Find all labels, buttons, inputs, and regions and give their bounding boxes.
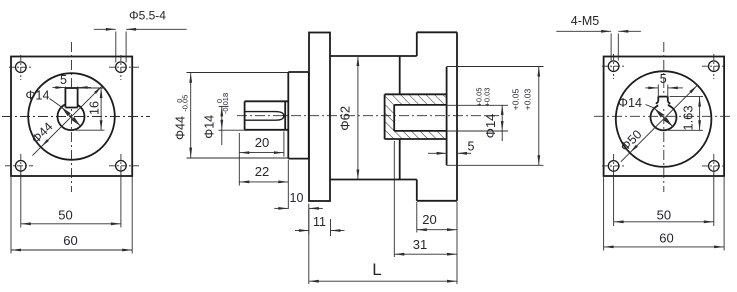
left view corner hole top-left	[15, 62, 26, 73]
dimension Phi14 leader and diameter line (right view)	[646, 105, 655, 109]
svg-text:31: 31	[413, 237, 427, 252]
extension lines for 50/60 dims (right view)	[613, 172, 615, 227]
svg-text:Φ44: Φ44	[174, 116, 188, 140]
output spigot Phi50 edge lines	[446, 67, 448, 166]
svg-text:16: 16	[88, 101, 102, 115]
svg-text:L: L	[372, 260, 381, 279]
left view bore circle Phi14	[58, 103, 85, 130]
dimension Phi44 (middle view input boss)	[187, 72, 288, 74]
right view vertical centerline	[663, 42, 665, 192]
dimension 10 boss length	[308, 204, 310, 235]
gearbox body Phi62 outline	[330, 55, 417, 57]
svg-text:50: 50	[58, 208, 72, 223]
svg-text:-0.018: -0.018	[221, 93, 230, 114]
dimension 20 keyway length	[238, 133, 240, 186]
svg-text:60: 60	[63, 233, 77, 248]
svg-text:Φ5.5-4: Φ5.5-4	[129, 9, 166, 23]
svg-text:Φ14: Φ14	[203, 115, 217, 139]
svg-text:11: 11	[313, 215, 326, 229]
dimension 5 keyway width (right view)	[657, 85, 659, 97]
svg-text:50: 50	[657, 208, 671, 223]
svg-text:Φ14: Φ14	[483, 114, 498, 139]
svg-text:+0.03: +0.03	[483, 88, 492, 107]
dimension 5 spigot depth	[428, 152, 447, 154]
dimension Phi14 leader and diameter line (left view)	[50, 99, 62, 108]
svg-text:5: 5	[468, 140, 475, 154]
dimension 16 keyway depth (left view)	[78, 87, 105, 89]
svg-text:20: 20	[422, 212, 436, 227]
input shaft Phi14 outline	[244, 101, 246, 130]
left view corner hole bottom-left	[15, 161, 26, 172]
svg-text:22: 22	[255, 164, 269, 179]
right view keyway slot	[658, 97, 668, 108]
dimension 60 (left view)	[11, 249, 132, 251]
extension lines for 50/60 dims (left view)	[20, 172, 22, 228]
input flange plate (square 60) edge-on	[309, 33, 330, 202]
left view horizontal centerline	[2, 116, 150, 118]
svg-text:60: 60	[659, 231, 673, 246]
dimension 50 (left view)	[21, 223, 121, 225]
svg-text:Φ14: Φ14	[26, 89, 50, 103]
dimension 20 output plate thickness	[416, 202, 418, 233]
svg-text:5: 5	[660, 72, 667, 86]
right view corner hole top-right	[709, 61, 720, 72]
svg-text:1.63: 1.63	[681, 105, 696, 130]
dimension Phi5.5-4 hole callout	[115, 32, 117, 63]
output flange plate edge-on	[416, 32, 418, 56]
right view square flange plate outline	[604, 57, 725, 177]
left view corner hole top-right	[116, 62, 127, 73]
left view keyway slot	[65, 88, 77, 108]
svg-text:Φ62: Φ62	[338, 106, 353, 131]
dimension 11 input plate thickness	[330, 219, 332, 236]
input boss Phi44 outline	[287, 72, 289, 159]
svg-text:Φ14: Φ14	[618, 96, 642, 110]
dimension Phi62 (body)	[357, 56, 359, 180]
svg-text:4-M5: 4-M5	[571, 14, 600, 28]
right view horizontal centerline	[594, 115, 733, 117]
svg-text:10: 10	[290, 191, 304, 205]
dimension 4-M5 hole callout	[610, 34, 612, 61]
right view corner hole bottom-left	[608, 161, 619, 172]
dimension Phi50 (output spigot)	[447, 66, 544, 68]
dimension 31 output bore depth	[393, 141, 395, 257]
left view mounting circle Phi44	[28, 73, 115, 160]
svg-text:20: 20	[255, 135, 269, 150]
dimension 1.63 keyway depth (right view)	[670, 96, 704, 98]
left view vertical centerline	[71, 42, 73, 192]
dimension Phi50 diameter line (right view)	[621, 85, 698, 162]
svg-text:+0.05: +0.05	[511, 88, 521, 110]
right view bore circle Phi14	[651, 104, 677, 130]
dimension 22 shaft length	[287, 160, 289, 209]
body internal step edge	[399, 56, 401, 94]
svg-text:+0.03: +0.03	[522, 88, 532, 110]
dimension 50 (right view)	[614, 221, 714, 223]
output bore Phi14 outline	[394, 104, 446, 106]
dimension Phi44 diameter line (left view)	[32, 86, 102, 156]
dimension Phi14 (input shaft)	[219, 105, 229, 107]
right view corner hole top-left	[608, 61, 619, 72]
right view corner hole bottom-right	[709, 161, 720, 172]
input shaft keyway flats	[246, 112, 284, 121]
left view square flange plate outline	[11, 57, 132, 177]
middle view horizontal centerline	[237, 115, 500, 117]
svg-text:5: 5	[60, 73, 67, 87]
dimension L overall length	[308, 209, 310, 284]
dimension 5 keyway width (left view)	[64, 87, 66, 89]
svg-text:-0.05: -0.05	[180, 95, 189, 112]
dimension Phi14 (output bore)	[447, 104, 508, 106]
local section: hatched material around output bore	[385, 94, 447, 139]
left view corner hole bottom-right	[116, 161, 127, 172]
right view circle Phi50	[616, 71, 712, 167]
dimension 60 (right view)	[604, 246, 725, 248]
